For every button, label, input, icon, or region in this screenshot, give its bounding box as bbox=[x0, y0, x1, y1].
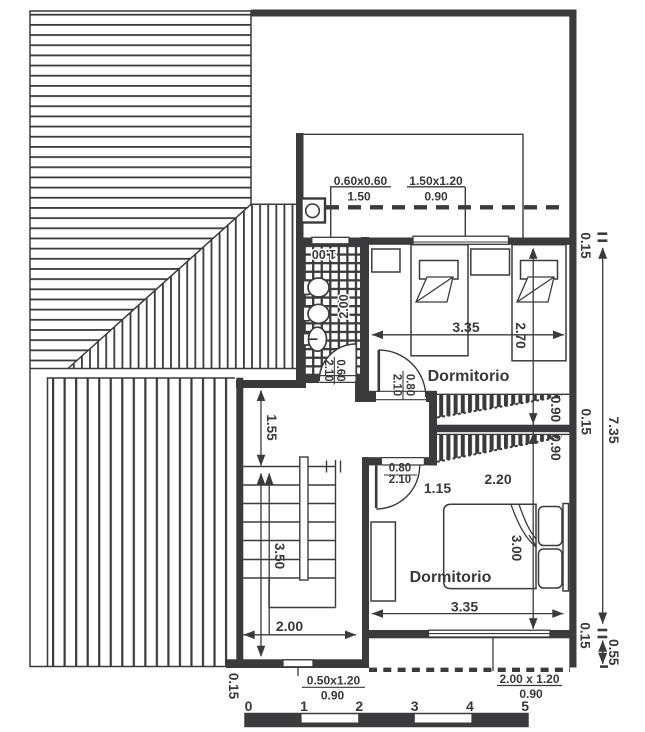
svg-text:2.10: 2.10 bbox=[391, 374, 403, 396]
svg-text:0: 0 bbox=[245, 698, 253, 714]
svg-text:0.90: 0.90 bbox=[321, 689, 345, 703]
svg-text:2.10: 2.10 bbox=[389, 474, 411, 486]
svg-text:1.00: 1.00 bbox=[312, 247, 336, 261]
svg-text:2.00: 2.00 bbox=[276, 618, 303, 634]
svg-text:1.50x1.20: 1.50x1.20 bbox=[409, 174, 463, 188]
svg-text:3.00: 3.00 bbox=[509, 535, 524, 561]
svg-text:0.15: 0.15 bbox=[579, 409, 594, 436]
svg-text:0.80: 0.80 bbox=[404, 374, 416, 396]
svg-text:0.15: 0.15 bbox=[226, 673, 241, 700]
svg-text:0.90: 0.90 bbox=[548, 434, 563, 460]
svg-text:3: 3 bbox=[411, 698, 419, 714]
svg-text:0.50x1.20: 0.50x1.20 bbox=[307, 674, 361, 688]
svg-text:1.15: 1.15 bbox=[424, 480, 451, 496]
svg-text:1.50: 1.50 bbox=[347, 190, 371, 204]
svg-text:2: 2 bbox=[355, 698, 363, 714]
svg-text:7.35: 7.35 bbox=[606, 416, 622, 443]
svg-text:2.00: 2.00 bbox=[337, 294, 351, 318]
svg-text:Dormitorio: Dormitorio bbox=[410, 569, 492, 586]
svg-text:3.50: 3.50 bbox=[272, 543, 287, 569]
svg-text:0.15: 0.15 bbox=[578, 622, 593, 649]
svg-text:1.55: 1.55 bbox=[264, 414, 279, 441]
svg-text:2.70: 2.70 bbox=[513, 322, 528, 348]
svg-text:2.00 x 1.20: 2.00 x 1.20 bbox=[499, 672, 559, 686]
svg-text:Dormitorio: Dormitorio bbox=[428, 368, 510, 385]
svg-text:3.35: 3.35 bbox=[451, 599, 478, 615]
svg-text:2.20: 2.20 bbox=[484, 471, 511, 487]
svg-text:0.90: 0.90 bbox=[424, 190, 448, 204]
svg-text:3.35: 3.35 bbox=[452, 319, 479, 335]
svg-text:0.60: 0.60 bbox=[334, 359, 346, 381]
svg-text:0.90: 0.90 bbox=[548, 396, 563, 422]
svg-text:0.80: 0.80 bbox=[389, 463, 411, 475]
svg-text:1: 1 bbox=[300, 698, 308, 714]
svg-text:0.15: 0.15 bbox=[578, 232, 593, 259]
svg-text:4: 4 bbox=[466, 698, 474, 714]
svg-text:5: 5 bbox=[521, 698, 529, 714]
svg-text:0.60x0.60: 0.60x0.60 bbox=[334, 174, 388, 188]
svg-text:2.10: 2.10 bbox=[322, 359, 334, 381]
svg-text:0.55: 0.55 bbox=[606, 639, 621, 666]
